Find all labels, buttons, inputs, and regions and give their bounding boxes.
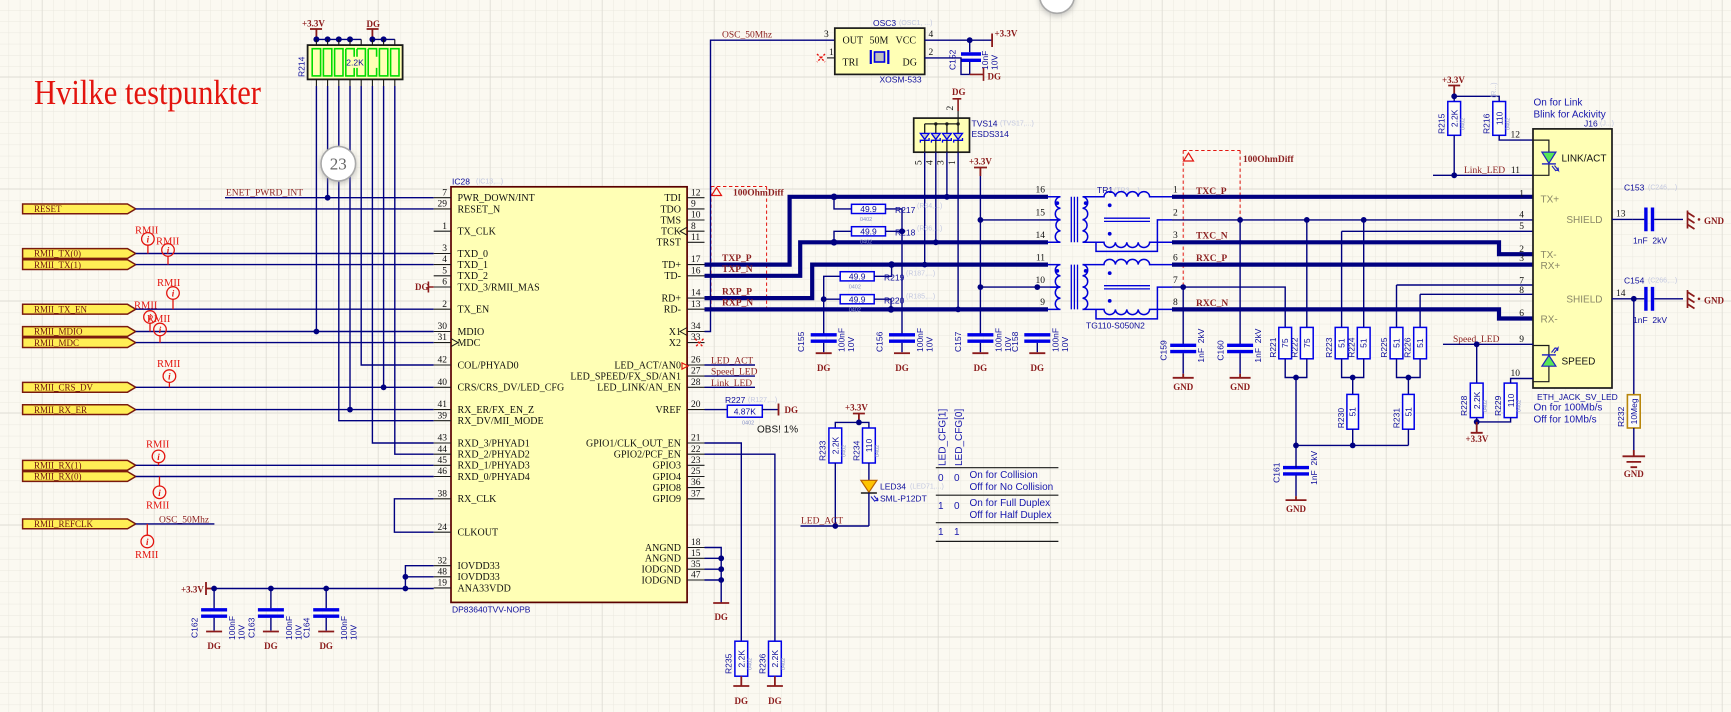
svg-text:100nF: 100nF	[915, 328, 925, 352]
svg-text:VREF: VREF	[655, 405, 681, 416]
connector J16 body	[1533, 129, 1612, 388]
IC28 pin 2 TX_EN	[434, 300, 489, 316]
IC28 pin 47 IODGND	[642, 571, 705, 587]
resistor R216 110	[1493, 102, 1506, 136]
svg-text:R223: R223	[1324, 337, 1334, 358]
wire R214 pin5 to IC pin42	[361, 86, 434, 365]
svg-text:10nF: 10nF	[980, 51, 990, 70]
svg-text:RMII_CRS_DV: RMII_CRS_DV	[34, 383, 94, 393]
svg-text:RXD_2/PHYAD2: RXD_2/PHYAD2	[458, 450, 530, 461]
op-amp/PHY IC U-IC28 body	[451, 187, 687, 603]
IC28 pin 26 LED_ACT/AN0	[614, 356, 704, 372]
resistor R222 75	[1300, 327, 1313, 358]
wire ENET_PWRD_INT to IC pin7	[225, 197, 434, 199]
junction dot +3.3V node	[856, 420, 862, 426]
resistor R218 49.9	[834, 226, 902, 240]
svg-text:2.2K: 2.2K	[737, 650, 747, 668]
svg-text:C152: C152	[948, 49, 958, 70]
svg-text:X1: X1	[669, 327, 681, 338]
svg-text:0: 0	[954, 473, 960, 484]
svg-text:ANA33VDD: ANA33VDD	[458, 583, 511, 594]
wire TVS pin1 to RXC_N	[957, 152, 959, 309]
ground DG (TVS pin2)	[952, 87, 966, 118]
TVS14 diode channel 3	[943, 124, 952, 152]
svg-text:(R84,...): (R84,...)	[917, 203, 942, 210]
svg-text:14: 14	[691, 289, 701, 299]
RMII directive circle (TX_EN)	[167, 287, 180, 310]
svg-text:4: 4	[442, 255, 447, 265]
junction dot RXP_P/R219	[888, 261, 895, 268]
wire TXP_N (IC TD- to transformer pin14)	[705, 242, 1049, 275]
svg-text:0402: 0402	[849, 307, 861, 313]
svg-text:TRI: TRI	[843, 58, 859, 69]
wire RXP_P (IC RD+ to transformer pin11)	[705, 265, 1049, 299]
IC28 pin 6 TXD_3/RMII_MAS	[434, 278, 540, 294]
svg-text:RMII: RMII	[134, 301, 158, 312]
svg-text:(R86,...): (R86,...)	[917, 225, 942, 232]
svg-text:OUT: OUT	[843, 36, 864, 47]
svg-text:48: 48	[438, 567, 448, 577]
C164 value 100nF 10V	[339, 616, 359, 640]
TR1 RX primary winding	[1048, 265, 1061, 310]
junction dot C154/R232	[1631, 296, 1637, 302]
J16 SHIELD pin 14	[1566, 289, 1633, 306]
capacitor C157 100nF 10V	[967, 335, 993, 352]
svg-text:40: 40	[438, 378, 448, 388]
svg-text:RX+: RX+	[1541, 261, 1561, 272]
resistor R220 49.9	[824, 294, 891, 307]
svg-text:8: 8	[1519, 286, 1524, 296]
C158 value 100nF 10V	[1050, 328, 1070, 352]
resistor R215 2.2K	[1448, 102, 1461, 136]
svg-text:GPIO1/CLK_OUT_EN: GPIO1/CLK_OUT_EN	[586, 438, 681, 449]
junction dot C158 / pin10 CT	[1034, 284, 1040, 290]
wire RXP_N (IC RD- to transformer pin9)	[705, 307, 1049, 311]
ground DG (C155)	[816, 353, 832, 373]
svg-text:Hvilke testpunkter: Hvilke testpunkter	[34, 73, 261, 112]
svg-text:Off for No Collision: Off for No Collision	[970, 482, 1054, 493]
svg-text:DG: DG	[988, 72, 1002, 82]
svg-text:3: 3	[442, 244, 447, 254]
resistor R233 2.2K	[829, 428, 842, 463]
wire +3.3V split to R233/R234	[835, 422, 869, 428]
svg-text:21: 21	[691, 434, 701, 444]
TVS14 diode channel 1	[920, 124, 929, 152]
IC28 pin 11 TRST	[657, 233, 705, 249]
svg-text:1nF 2kV: 1nF 2kV	[1633, 315, 1667, 325]
svg-text:R220: R220	[884, 295, 905, 305]
IC28 pin 18 ANGND	[645, 538, 705, 554]
IC28 pin 48 IOVDD33	[434, 567, 500, 583]
svg-text:GPIO8: GPIO8	[653, 483, 681, 494]
TR1 TX choke bottom phase dot	[1108, 232, 1112, 236]
svg-text:TX-: TX-	[1541, 250, 1557, 261]
svg-text:4: 4	[926, 160, 936, 165]
svg-text:36: 36	[691, 478, 701, 488]
svg-text:TDI: TDI	[664, 193, 681, 204]
svg-text:46: 46	[438, 467, 448, 477]
svg-text:R235: R235	[724, 653, 734, 674]
svg-text:12: 12	[691, 188, 701, 198]
svg-text:Link_LED: Link_LED	[1464, 166, 1505, 176]
svg-text:23: 23	[330, 155, 347, 174]
svg-text:13: 13	[1616, 210, 1626, 220]
OSC3 pin 2 wire to DG	[925, 48, 970, 74]
TR1 RX core	[1071, 265, 1077, 310]
svg-text:0402: 0402	[1517, 400, 1523, 412]
svg-text:2: 2	[929, 48, 934, 58]
TR1 TX secondary winding	[1083, 197, 1088, 243]
svg-text:TMS: TMS	[660, 215, 681, 226]
svg-text:R231: R231	[1392, 408, 1402, 429]
svg-text:R214: R214	[297, 56, 307, 77]
svg-text:IOVDD33: IOVDD33	[458, 561, 500, 572]
LED LED34 SML-P12DT	[861, 480, 878, 526]
IC28 pin 35 IODGND	[642, 560, 705, 576]
svg-text:DG: DG	[903, 58, 917, 69]
wire +3.3V to R215/R216	[1454, 96, 1499, 101]
port RMII_REFCLK	[23, 519, 136, 529]
J16 pin 11	[1511, 166, 1520, 176]
svg-text:RMII: RMII	[157, 278, 181, 289]
svg-text:CLKOUT: CLKOUT	[458, 528, 499, 539]
ground GND (C160)	[1230, 374, 1251, 392]
wire R225 drop	[1396, 285, 1398, 327]
svg-text:0402: 0402	[1460, 118, 1466, 130]
svg-text:DG: DG	[952, 87, 966, 97]
svg-text:1: 1	[1519, 190, 1524, 200]
svg-text:0402: 0402	[860, 217, 872, 223]
svg-text:RMII_TX(0): RMII_TX(0)	[34, 249, 81, 259]
capacitor C159 drop wire	[1182, 287, 1184, 345]
wire Speed_LED to jack pin9	[1443, 343, 1533, 345]
wire R228/R229 bottoms to +3.3V	[1477, 418, 1511, 422]
svg-text:C156: C156	[875, 331, 885, 352]
port RMII_MDC	[23, 338, 136, 348]
svg-text:R229: R229	[1493, 395, 1503, 416]
svg-text:TD-: TD-	[664, 271, 681, 282]
IC28 pin 31 MDC	[434, 333, 481, 349]
OSC3 pin 1 stub with no-ERC cross	[817, 48, 835, 62]
svg-text:GND: GND	[1173, 382, 1194, 392]
resistor R225 51	[1390, 327, 1403, 358]
junction dots IOVDD rail	[211, 574, 408, 592]
C157 value 100nF 10V	[993, 328, 1013, 352]
svg-text:C158: C158	[1010, 331, 1020, 352]
svg-text:16: 16	[1036, 186, 1046, 196]
wire TXC_N (TR1 pin3 to jack TX-)	[1172, 242, 1533, 254]
svg-text:RMII_MDIO: RMII_MDIO	[34, 327, 83, 337]
table rules	[936, 468, 1059, 542]
svg-text:0402: 0402	[841, 445, 847, 457]
svg-text:100nF: 100nF	[837, 328, 847, 352]
port RMII_RX(1)	[23, 460, 136, 470]
svg-text:IODGND: IODGND	[642, 575, 681, 586]
IC28 pin 39 RX_DV/MII_MODE	[434, 411, 544, 427]
svg-text:5: 5	[1519, 222, 1524, 232]
wire LED_ACT	[801, 525, 869, 527]
junction dot R228 bottom	[1474, 419, 1480, 425]
svg-text:RD-: RD-	[664, 305, 681, 316]
svg-text:23: 23	[691, 456, 701, 466]
svg-text:TX_CLK: TX_CLK	[458, 227, 497, 238]
svg-text:47: 47	[691, 571, 701, 581]
svg-text:COL/PHYAD0: COL/PHYAD0	[458, 360, 519, 371]
svg-text:2.2K: 2.2K	[346, 58, 364, 68]
wire RMII_REFCLK stub	[136, 523, 215, 525]
port RMII_TX_EN	[23, 304, 136, 314]
ground DG (C158)	[1029, 353, 1045, 373]
resistor R227 4.87K	[705, 405, 779, 417]
svg-text:+3.3V: +3.3V	[995, 29, 1018, 39]
wire R232 to GND	[1633, 428, 1635, 450]
IC28 pin 10 TMS	[660, 211, 704, 227]
TR1 RX center tap lead	[1096, 287, 1172, 319]
TVS diode array TVS14 body	[914, 118, 970, 152]
svg-text:R225: R225	[1379, 337, 1389, 358]
svg-text:51: 51	[1403, 407, 1413, 417]
svg-text:24: 24	[438, 523, 448, 533]
resistor R232 10Meg	[1627, 395, 1640, 428]
svg-text:51: 51	[1359, 338, 1369, 348]
svg-text:19: 19	[438, 579, 448, 589]
wire R219/R220 common to C155	[823, 276, 825, 334]
IC28 clock marks TCK X1 MDC	[451, 227, 687, 346]
svg-text:IODGND: IODGND	[642, 565, 681, 576]
svg-text:2: 2	[946, 106, 956, 111]
ground DG (OSC/C152)	[970, 68, 1001, 82]
junction dot R225/R226	[1406, 375, 1412, 381]
ground GND (C154 chassis)	[1688, 290, 1725, 309]
capacitor C154 1nF 2kV	[1633, 287, 1683, 311]
RMII circle i glyphs	[146, 234, 175, 547]
svg-text:(OSC1, ...): (OSC1, ...)	[899, 20, 932, 27]
svg-text:SML-P12DT: SML-P12DT	[880, 494, 927, 504]
TVS14 diode channel 4	[954, 124, 963, 152]
IC28 pin 8 TCK	[661, 222, 705, 238]
capacitor C153 1nF 2kV	[1633, 208, 1683, 232]
svg-text:C163: C163	[246, 617, 256, 638]
svg-text:110: 110	[864, 438, 874, 452]
svg-text:14: 14	[1036, 231, 1046, 241]
svg-text:R222: R222	[1289, 337, 1299, 358]
capacitor C160 1nF 2kV	[1227, 345, 1253, 374]
svg-text:2.2K: 2.2K	[1450, 109, 1460, 127]
svg-text:R232: R232	[1616, 406, 1626, 427]
svg-text:29: 29	[438, 200, 448, 210]
ground DG (R235)	[733, 676, 749, 706]
svg-text:18: 18	[691, 538, 701, 548]
TR1 RX secondary winding	[1083, 265, 1088, 310]
IC28 pin 4 TXD_1	[434, 255, 488, 271]
svg-text:C160: C160	[1216, 340, 1226, 361]
wire jack pin5 to R223	[1342, 230, 1533, 232]
IC28 pin 44 RXD_2/PHYAD2	[434, 445, 530, 461]
port RMII_RX(0)	[23, 472, 136, 482]
wire RMII_MDC to IC pin31	[136, 342, 434, 344]
svg-text:2.2K: 2.2K	[1472, 391, 1482, 409]
svg-text:42: 42	[438, 356, 448, 366]
svg-text:0402: 0402	[1483, 400, 1489, 412]
svg-text:Off for 10Mb/s: Off for 10Mb/s	[1534, 415, 1597, 426]
svg-text:LINK/ACT: LINK/ACT	[1562, 154, 1607, 165]
svg-text:R226: R226	[1403, 337, 1413, 358]
port RMII_MDIO	[23, 327, 136, 337]
wire pin27 net stub	[705, 375, 756, 377]
svg-text:1: 1	[442, 222, 447, 232]
svg-text:DG: DG	[319, 641, 333, 651]
svg-text:0402: 0402	[860, 239, 872, 245]
junction dot pin2/R222	[1304, 217, 1310, 223]
R214 top pin stubs	[316, 39, 394, 45]
svg-text:20: 20	[691, 400, 701, 410]
resistor R228 2.2K	[1470, 383, 1483, 418]
svg-text:7: 7	[1173, 276, 1178, 286]
wire R228 drop	[1476, 344, 1478, 383]
svg-text:LED_SPEED/FX_SD/AN1: LED_SPEED/FX_SD/AN1	[570, 372, 681, 383]
svg-text:On for Full Duplex: On for Full Duplex	[970, 498, 1051, 509]
J16 internal LINK/ACT LED	[1533, 140, 1607, 175]
wire TR1 pin2 CT to R222 and jack pin4	[1172, 219, 1533, 221]
svg-text:C154: C154	[1624, 276, 1645, 286]
RMII directive circle (MDIO)	[144, 311, 157, 332]
svg-text:RMII_RX_ER: RMII_RX_ER	[34, 405, 87, 415]
ground DG (R236)	[767, 676, 783, 706]
wire R214 pin6 to IC pin43	[372, 86, 433, 443]
wire R233 to LED_ACT	[834, 463, 836, 526]
svg-text:GND: GND	[1286, 504, 1307, 514]
TR1 TX primary phase dot	[1055, 201, 1059, 205]
IC28 pin 30 MDIO	[434, 322, 484, 338]
svg-text:DG: DG	[974, 363, 988, 373]
OSC3 crystal symbol	[871, 50, 889, 64]
svg-text:+3.3V: +3.3V	[302, 19, 325, 29]
svg-text:R228: R228	[1459, 395, 1469, 416]
J16 pin 9	[1519, 335, 1524, 345]
svg-text:1: 1	[954, 527, 960, 538]
svg-text:100nF: 100nF	[227, 616, 237, 640]
svg-text:R234: R234	[851, 440, 861, 461]
R214 resistor elements (green)	[312, 49, 399, 76]
IC28 pin 27 LED_SPEED/FX_SD/AN1	[570, 367, 704, 383]
svg-text:1nF 2kV: 1nF 2kV	[1253, 328, 1263, 362]
svg-text:39: 39	[438, 411, 448, 421]
svg-text:RMII: RMII	[146, 501, 170, 512]
wire R226 drop	[1419, 294, 1421, 327]
wire R221/R222 join	[1285, 359, 1307, 446]
svg-text:100nF: 100nF	[284, 616, 294, 640]
resistor R234 110	[863, 428, 876, 463]
TR1 TX choke bottom winding	[1083, 242, 1173, 247]
table row 1 1	[938, 527, 960, 538]
TVS14 internal bus	[925, 118, 960, 126]
svg-text:RMII: RMII	[146, 440, 170, 451]
J16 pin 6 RX-	[1519, 309, 1557, 325]
wire R214 pin3 to IC pin39	[339, 86, 434, 421]
capacitor C152	[961, 40, 981, 74]
svg-text:10V: 10V	[925, 337, 935, 352]
svg-text:4: 4	[929, 30, 934, 40]
svg-text:TG110-S050N2: TG110-S050N2	[1086, 321, 1145, 331]
svg-text:RXD_1/PHYAD3: RXD_1/PHYAD3	[458, 461, 530, 472]
svg-text:J16: J16	[1584, 119, 1598, 129]
svg-text:33: 33	[691, 333, 701, 343]
R214 bottom pin stubs	[316, 79, 394, 86]
svg-text:IC28: IC28	[452, 177, 470, 187]
svg-text:R221: R221	[1268, 337, 1278, 358]
svg-text:0402: 0402	[1505, 118, 1511, 130]
svg-text:15: 15	[691, 549, 701, 559]
J16 pin 8	[1519, 286, 1524, 296]
TR1 TX center tap lead	[1096, 220, 1172, 252]
capacitor C155 100nF 10V	[811, 335, 837, 352]
svg-text:28: 28	[691, 378, 701, 388]
svg-text:R215: R215	[1437, 113, 1447, 134]
ground DG (C156)	[894, 353, 910, 373]
svg-text:R233: R233	[818, 440, 828, 461]
svg-text:32: 32	[438, 556, 448, 566]
svg-text:0402: 0402	[781, 658, 787, 670]
wire RMII_TX(1) to IC pin4	[136, 264, 434, 266]
svg-text:DG: DG	[895, 363, 909, 373]
svg-text:34: 34	[691, 322, 701, 332]
C155 value 100nF 10V	[837, 328, 857, 352]
svg-text:7: 7	[442, 188, 447, 198]
svg-text:(IC13,...): (IC13,...)	[476, 179, 503, 186]
svg-text:R219: R219	[884, 272, 905, 282]
svg-text:C159: C159	[1159, 340, 1169, 361]
svg-text:SHIELD: SHIELD	[1566, 215, 1602, 226]
svg-text:TXD_1: TXD_1	[458, 260, 489, 271]
svg-text:1nF 2kV: 1nF 2kV	[1309, 451, 1319, 485]
svg-text:TX+: TX+	[1541, 195, 1560, 206]
IC28 pin 42 COL/PHYAD0	[434, 356, 519, 372]
junction dot C161/common	[1293, 443, 1299, 449]
svg-text:GPIO2/PCF_EN: GPIO2/PCF_EN	[614, 450, 681, 461]
wire pin26 net stub	[705, 364, 756, 366]
svg-text:4.87K: 4.87K	[734, 406, 757, 416]
junction dot R233/LED_ACT	[832, 523, 838, 529]
svg-text:ESDS314: ESDS314	[972, 129, 1010, 139]
svg-text:MDC: MDC	[458, 338, 481, 349]
svg-text:VCC: VCC	[896, 36, 917, 47]
IC28 pin 12 TDI	[664, 188, 704, 204]
svg-text:RMII_TX_EN: RMII_TX_EN	[34, 304, 87, 314]
svg-text:16: 16	[691, 266, 701, 276]
svg-text:Off for Half Duplex: Off for Half Duplex	[970, 510, 1052, 521]
TR1 TX primary winding	[1048, 197, 1061, 243]
power +3.3V (LED34)	[845, 403, 868, 423]
svg-text:RMII_REFCLK: RMII_REFCLK	[34, 519, 94, 529]
OSC3 pin 4 wire to +3.3V	[925, 30, 992, 40]
svg-text:+3.3V: +3.3V	[969, 157, 992, 167]
resistor R229 110	[1504, 383, 1517, 418]
resistor network R214 body	[308, 45, 403, 79]
wire R223/R224 join to R230	[1342, 359, 1364, 395]
svg-text:TD+: TD+	[662, 260, 681, 271]
wire RMII_TX(0) to IC pin3	[136, 253, 434, 255]
IC28 pin 36 GPIO8	[653, 478, 705, 494]
svg-text:On for Link: On for Link	[1534, 98, 1584, 109]
wire R214 top bus (+3.3V side)	[316, 38, 361, 40]
svg-text:GND: GND	[1704, 296, 1725, 306]
differential rule box 100OhmDiff (PHY side)	[711, 187, 785, 310]
TR1 TX secondary phase dot	[1084, 201, 1088, 205]
wire RMII_CRS_DV to IC pin40	[136, 386, 434, 388]
svg-text:0402: 0402	[849, 284, 861, 290]
IC28 pin 5 TXD_2	[434, 266, 488, 282]
wire RMII_RX_ER to IC pin41	[136, 409, 434, 411]
